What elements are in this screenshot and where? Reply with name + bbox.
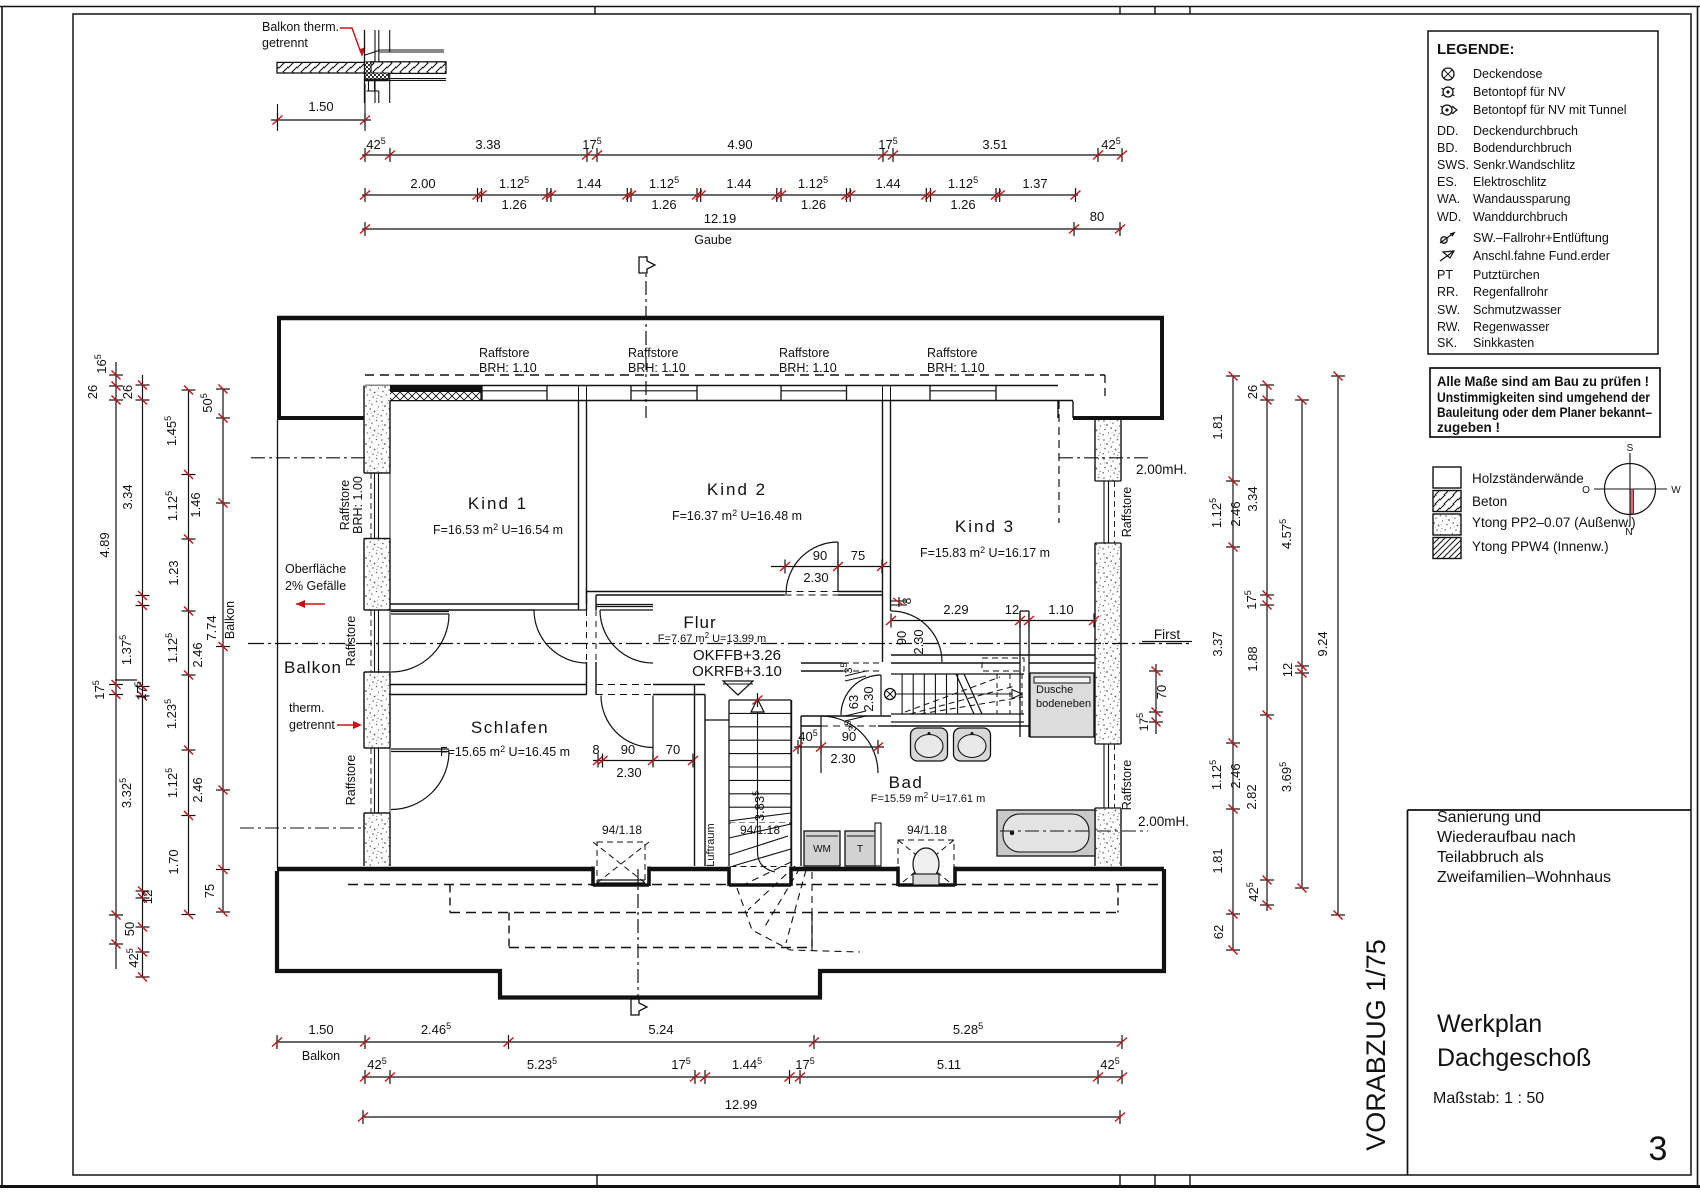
svg-text:OKFFB+3.26: OKFFB+3.26 <box>693 647 781 664</box>
top dimension row D (12.19 Gaube / 80) <box>362 228 1076 230</box>
bottom dimension row 2 <box>362 1076 1122 1078</box>
svg-text:Deckendose: Deckendose <box>1473 67 1543 81</box>
svg-text:Regenwasser: Regenwasser <box>1473 320 1549 334</box>
Kind3 south wall <box>891 654 1095 656</box>
left dimension chain D <box>222 389 224 912</box>
Kind1 south wall with opening to vestibule <box>390 603 579 605</box>
svg-text:BRH: 1.10: BRH: 1.10 <box>779 361 837 375</box>
svg-text:2.29: 2.29 <box>943 602 968 617</box>
svg-text:zugeben !: zugeben ! <box>1437 420 1500 435</box>
door arc window 2 west (into Schlafen upper) <box>391 611 449 613</box>
Luftraum dashed box and label <box>729 823 791 867</box>
svg-text:O: O <box>1582 485 1590 496</box>
svg-text:Raffstore: Raffstore <box>344 755 358 806</box>
svg-text:Teilabbruch als: Teilabbruch als <box>1437 849 1544 866</box>
svg-text:BRH: 1.00: BRH: 1.00 <box>351 476 365 534</box>
legend symbol Betontopf NV Tunnel <box>1442 105 1452 115</box>
duct next to appliances <box>875 823 881 866</box>
svg-text:1.26: 1.26 <box>651 197 676 212</box>
svg-text:62: 62 <box>1211 925 1226 939</box>
svg-text:Alle Maße sind am Bau zu prüfe: Alle Maße sind am Bau zu prüfen ! <box>1437 374 1649 389</box>
material legend Ytong PPW4 <box>1433 538 1461 559</box>
Bad door dimension <box>794 746 884 748</box>
balkon west edge line <box>277 420 279 868</box>
insulation strip top-left (black bar + crosshatch) <box>365 386 481 392</box>
dashed winder diagonals upper flight <box>905 677 1000 712</box>
svg-text:2.30: 2.30 <box>861 686 876 711</box>
svg-text:94/1.18: 94/1.18 <box>602 823 642 837</box>
svg-text:Luftraum: Luftraum <box>705 823 717 866</box>
svg-text:Kind 2: Kind 2 <box>707 480 767 499</box>
svg-text:94/1.18: 94/1.18 <box>740 823 780 837</box>
flight south wall <box>891 721 1024 723</box>
svg-text:Balkon: Balkon <box>284 658 342 677</box>
top exterior wall band (knee wall with windows) <box>365 385 1058 387</box>
svg-text:SW.–Fallrohr+Entlüftung: SW.–Fallrohr+Entlüftung <box>1473 231 1609 245</box>
svg-text:getrennt: getrennt <box>262 36 308 50</box>
svg-text:Werkplan: Werkplan <box>1437 1010 1542 1038</box>
compass rose <box>1605 464 1656 515</box>
right dimension chain R1 <box>1232 376 1234 950</box>
svg-text:Ytong PPW4 (Innenw.): Ytong PPW4 (Innenw.) <box>1472 539 1609 554</box>
dashed box above upper flight <box>982 658 1024 671</box>
svg-text:26: 26 <box>120 385 135 399</box>
svg-text:12: 12 <box>1280 663 1295 677</box>
left dimension chain B <box>142 375 144 977</box>
winder steps <box>729 813 791 821</box>
Flur north finish lines <box>596 604 653 606</box>
bottom dimension row 3 (12.99) <box>363 1116 1120 1118</box>
svg-text:70: 70 <box>1154 685 1169 699</box>
svg-text:26: 26 <box>1245 385 1260 399</box>
staircase upper flight <box>891 673 1024 675</box>
title block separator lines <box>1407 810 1409 1175</box>
dryer T <box>845 831 876 866</box>
svg-text:WA.: WA. <box>1437 192 1460 206</box>
wall Kind1-Kind2 <box>578 401 580 611</box>
svg-text:Unstimmigkeiten sind umgehend: Unstimmigkeiten sind umgehend der <box>1437 390 1651 405</box>
svg-text:Raffstore: Raffstore <box>628 346 679 360</box>
svg-text:Wandaussparung: Wandaussparung <box>1473 192 1571 206</box>
svg-text:F=16.53 m2 U=16.54 m: F=16.53 m2 U=16.54 m <box>433 522 563 537</box>
dashed line down right of gaube <box>1104 375 1106 401</box>
First ridge dash-dot line <box>248 643 1193 645</box>
svg-text:Schlafen: Schlafen <box>471 718 549 737</box>
svg-text:Sinkkasten: Sinkkasten <box>1473 336 1534 350</box>
svg-text:BRH: 1.10: BRH: 1.10 <box>927 361 985 375</box>
svg-text:1.44: 1.44 <box>875 176 900 191</box>
svg-text:90: 90 <box>842 729 856 744</box>
svg-text:1.44: 1.44 <box>576 176 601 191</box>
svg-text:LEGENDE:: LEGENDE: <box>1437 41 1515 58</box>
svg-text:4.89: 4.89 <box>97 532 112 557</box>
door arc landing side <box>600 609 653 611</box>
svg-text:2.46: 2.46 <box>190 642 205 667</box>
svg-text:F=7.67 m2 U=13.99 m: F=7.67 m2 U=13.99 m <box>658 631 766 645</box>
svg-text:Schmutzwasser: Schmutzwasser <box>1473 303 1561 317</box>
svg-text:W: W <box>1671 485 1681 496</box>
svg-text:OKRFB+3.10: OKRFB+3.10 <box>692 663 782 680</box>
1.26 window width ticks and labels on row B <box>477 188 479 202</box>
svg-text:3.51: 3.51 <box>982 137 1007 152</box>
svg-text:Senkr.Wandschlitz: Senkr.Wandschlitz <box>1473 158 1575 172</box>
Flur east dimension 2.29/12/1.10 <box>891 620 1094 622</box>
Dusche bodeneben <box>1030 673 1094 737</box>
svg-text:BRH: 1.10: BRH: 1.10 <box>479 361 537 375</box>
svg-text:94/1.18: 94/1.18 <box>907 823 947 837</box>
wall junction ticks in top band <box>578 386 580 401</box>
svg-text:Raffstore: Raffstore <box>1120 760 1134 811</box>
legend symbol Betontopf NV <box>1443 87 1453 97</box>
svg-text:Balkon: Balkon <box>223 601 237 639</box>
raffstore dashed line above top wall <box>365 374 1105 376</box>
svg-text:1.37: 1.37 <box>1022 176 1047 191</box>
svg-text:5.24: 5.24 <box>648 1022 673 1037</box>
stair cut line <box>956 674 974 714</box>
svg-text:2.46: 2.46 <box>190 777 205 802</box>
top dimension chain row B <box>362 194 1078 196</box>
svg-text:Raffstore: Raffstore <box>344 616 358 667</box>
stair dimension tick top <box>757 693 759 707</box>
svg-text:12: 12 <box>140 890 155 904</box>
svg-text:Ytong PP2–0.07 (Außenw.): Ytong PP2–0.07 (Außenw.) <box>1472 515 1636 530</box>
Bad north wall with door 40.5/90 <box>801 715 891 717</box>
top dimension chain row A <box>362 154 1122 156</box>
eaves step top right <box>1057 401 1059 418</box>
svg-text:F=16.37 m2 U=16.48 m: F=16.37 m2 U=16.48 m <box>672 508 802 523</box>
svg-text:Raffstore: Raffstore <box>927 346 978 360</box>
svg-text:VORABZUG 1/75: VORABZUG 1/75 <box>1361 939 1391 1151</box>
svg-text:Oberfläche: Oberfläche <box>285 562 346 576</box>
svg-text:Dachgeschoß: Dachgeschoß <box>1437 1044 1591 1072</box>
Kind2 door dimension 90/75/2.30 <box>771 566 890 568</box>
svg-text:WD.: WD. <box>1437 210 1461 224</box>
Deckendose symbol at stair <box>885 689 896 700</box>
svg-text:Raffstore: Raffstore <box>479 346 530 360</box>
svg-text:Elektroschlitz: Elektroschlitz <box>1473 175 1547 189</box>
Kind2 door leaf and arc <box>837 542 839 592</box>
svg-text:Bodendurchbruch: Bodendurchbruch <box>1473 141 1572 155</box>
svg-text:75: 75 <box>851 548 865 563</box>
svg-text:1.26: 1.26 <box>502 197 527 212</box>
svg-text:Deckendurchbruch: Deckendurchbruch <box>1473 124 1578 138</box>
vestibule wall stub x586-596 <box>586 590 588 610</box>
lower storey thick outline <box>277 869 1164 998</box>
svg-text:2.46: 2.46 <box>1228 501 1243 526</box>
Alle Masse notes box <box>1430 368 1660 437</box>
wall Kind2-Kind3 <box>882 401 884 663</box>
left dimension chain C <box>188 390 190 915</box>
svg-text:12: 12 <box>1005 602 1019 617</box>
svg-text:50: 50 <box>122 922 137 936</box>
svg-text:2% Gefälle: 2% Gefälle <box>285 579 346 593</box>
svg-text:3.34: 3.34 <box>120 484 135 509</box>
svg-text:1.81: 1.81 <box>1210 848 1225 873</box>
material legend Ytong PP2 <box>1433 514 1461 535</box>
Schlafen north wall <box>390 684 587 686</box>
west exterior wall (Ytong) with windows <box>364 386 390 867</box>
Kind3 west wall door <box>891 611 942 662</box>
svg-text:2.00mH.: 2.00mH. <box>1138 814 1189 829</box>
svg-text:2.30: 2.30 <box>803 570 828 585</box>
legend symbol Deckendose <box>1442 68 1454 80</box>
thick eaves outline top <box>277 316 1164 321</box>
svg-text:F=15.65 m2 U=16.45 m: F=15.65 m2 U=16.45 m <box>440 744 570 759</box>
svg-text:3.37: 3.37 <box>1210 631 1225 656</box>
window segment boundaries west wall <box>364 472 390 474</box>
right dimension chain R4 <box>1337 376 1339 915</box>
svg-text:2.30: 2.30 <box>830 751 855 766</box>
svg-text:1.70: 1.70 <box>166 849 181 874</box>
svg-text:2.82: 2.82 <box>1244 784 1259 809</box>
Luftraum wall <box>694 685 696 867</box>
Schlafen door arc <box>601 696 653 748</box>
svg-text:Balkon therm.: Balkon therm. <box>262 20 339 34</box>
fold mark left edge <box>115 679 137 681</box>
svg-text:First: First <box>1154 627 1180 642</box>
svg-text:70: 70 <box>666 742 680 757</box>
svg-text:Raffstore: Raffstore <box>338 480 352 531</box>
right dimension chain R2 <box>1266 385 1268 911</box>
svg-text:90: 90 <box>894 631 909 645</box>
svg-text:Maßstab: 1 : 50: Maßstab: 1 : 50 <box>1433 1090 1544 1107</box>
svg-text:9.24: 9.24 <box>1315 631 1330 656</box>
svg-text:getrennt: getrennt <box>289 718 335 732</box>
svg-text:2.30: 2.30 <box>616 765 641 780</box>
fold marks top edge <box>594 7 596 15</box>
svg-text:3.38: 3.38 <box>475 137 500 152</box>
svg-text:1.10: 1.10 <box>1048 602 1073 617</box>
svg-text:Wiederaufbau nach: Wiederaufbau nach <box>1437 829 1576 846</box>
legend symbol Anschlussfahne <box>1440 251 1454 261</box>
svg-text:90: 90 <box>813 548 827 563</box>
dimension 1.50 (balcony detail) <box>271 119 371 121</box>
svg-text:Kind 1: Kind 1 <box>468 494 528 513</box>
section line top with arrow <box>645 256 647 418</box>
Kind3 door dims vertical <box>898 597 900 607</box>
bathtub <box>997 810 1095 856</box>
east stair wall <box>791 700 793 866</box>
windows in top band <box>481 386 483 401</box>
svg-text:1.46: 1.46 <box>188 492 203 517</box>
east exterior wall (Ytong) with windows <box>1095 420 1121 866</box>
dashed roof overhang outlines below plan <box>348 884 1164 886</box>
svg-text:BD.: BD. <box>1437 141 1458 155</box>
svg-text:Raffstore: Raffstore <box>779 346 830 360</box>
svg-text:RW.: RW. <box>1437 320 1460 334</box>
bottom thick exterior wall with bays <box>277 867 593 872</box>
washing machine WM <box>804 831 840 866</box>
door arc window 3 west (into Schlafen) <box>391 748 449 750</box>
svg-text:Zweifamilien–Wohnhaus: Zweifamilien–Wohnhaus <box>1437 869 1611 886</box>
svg-text:Flur: Flur <box>683 613 716 632</box>
washbasins <box>911 728 948 761</box>
svg-text:Dusche: Dusche <box>1036 684 1073 696</box>
stair walk line lower <box>757 706 759 852</box>
svg-text:1.50: 1.50 <box>308 99 333 114</box>
svg-text:2.00: 2.00 <box>410 176 435 191</box>
material legend Holzstaenderwaende <box>1433 467 1461 488</box>
svg-text:1.81: 1.81 <box>1210 414 1225 439</box>
svg-text:1.50: 1.50 <box>308 1022 333 1037</box>
svg-text:1.44: 1.44 <box>726 176 751 191</box>
dimension 70/17.5 right of Dusche <box>1155 664 1157 734</box>
svg-text:DD.: DD. <box>1437 124 1459 138</box>
svg-text:Gaube: Gaube <box>694 233 732 247</box>
svg-text:Wanddurchbruch: Wanddurchbruch <box>1473 210 1568 224</box>
landing door 63/2.30 <box>801 662 843 664</box>
svg-text:N: N <box>1625 527 1632 538</box>
upper flight walk line with arrow <box>895 693 1012 695</box>
svg-text:Anschl.fahne Fund.erder: Anschl.fahne Fund.erder <box>1473 249 1610 263</box>
svg-text:2.30: 2.30 <box>911 629 926 654</box>
legend symbol SW-Fallrohr <box>1441 237 1447 243</box>
svg-text:4.90: 4.90 <box>727 137 752 152</box>
svg-text:F=15.83 m2 U=16.17 m: F=15.83 m2 U=16.17 m <box>920 545 1050 560</box>
svg-text:7.74: 7.74 <box>204 615 219 640</box>
svg-text:Bauleitung oder dem Planer bek: Bauleitung oder dem Planer bekannt– <box>1437 405 1652 420</box>
svg-text:12.19: 12.19 <box>704 211 737 226</box>
svg-text:1.88: 1.88 <box>1245 646 1260 671</box>
svg-text:Betontopf für NV mit Tunne: Betontopf für NV mit Tunnel <box>1473 103 1627 117</box>
svg-text:Bad: Bad <box>889 773 924 792</box>
winder dashed continuation below <box>737 862 791 888</box>
svg-text:12.99: 12.99 <box>725 1097 758 1112</box>
svg-text:80: 80 <box>1090 209 1104 224</box>
svg-text:Balkon: Balkon <box>302 1049 340 1063</box>
svg-text:BRH: 1.10: BRH: 1.10 <box>628 361 686 375</box>
svg-text:Putztürchen: Putztürchen <box>1473 268 1540 282</box>
svg-text:Sanierung und: Sanierung und <box>1437 809 1541 826</box>
material legend Beton <box>1433 491 1461 512</box>
door arc Schlafen vestibule <box>534 609 587 611</box>
page outer border <box>0 6 1700 8</box>
svg-text:Beton: Beton <box>1472 494 1507 509</box>
Kind2 south wall with door <box>587 591 785 593</box>
svg-text:Kind 3: Kind 3 <box>955 517 1015 536</box>
svg-text:2.00mH.: 2.00mH. <box>1136 462 1187 477</box>
svg-text:PT: PT <box>1437 268 1453 282</box>
svg-text:SK.: SK. <box>1437 336 1457 350</box>
svg-text:90: 90 <box>621 742 635 757</box>
bay window dashed box left (Schlafen gable window) <box>597 842 645 886</box>
Schlafen door dimension 8/90/70 2.30 <box>593 760 694 762</box>
svg-text:26: 26 <box>85 385 100 399</box>
svg-text:2.46: 2.46 <box>1228 763 1243 788</box>
dashed roof 2m line right <box>1058 401 1060 523</box>
svg-text:therm.: therm. <box>289 701 324 715</box>
svg-text:SWS.: SWS. <box>1437 158 1469 172</box>
section line bottom with arrow <box>637 869 639 1000</box>
left dimension chain A <box>115 362 117 969</box>
LEGENDE box <box>1428 31 1658 354</box>
svg-text:63: 63 <box>846 695 861 709</box>
svg-text:T: T <box>857 844 863 855</box>
bottom dimension row 1 <box>277 1041 1122 1043</box>
stub wall in Flur east arm <box>1019 611 1021 737</box>
svg-text:75: 75 <box>202 884 217 898</box>
svg-text:WM: WM <box>813 844 831 855</box>
svg-text:8: 8 <box>900 597 914 604</box>
svg-text:Raffstore: Raffstore <box>1120 487 1134 538</box>
svg-text:1.26: 1.26 <box>950 197 975 212</box>
svg-text:SW.: SW. <box>1437 303 1460 317</box>
right dimension chain R3 <box>1301 400 1303 888</box>
svg-text:F=15.59 m2 U=17.61 m: F=15.59 m2 U=17.61 m <box>871 791 986 805</box>
svg-text:Regenfallrohr: Regenfallrohr <box>1473 285 1548 299</box>
staircase lower flight <box>728 700 730 866</box>
Bad door arc <box>821 716 878 773</box>
svg-text:5.11: 5.11 <box>937 1057 961 1072</box>
svg-text:3: 3 <box>1649 1130 1668 1168</box>
svg-text:bodeneben: bodeneben <box>1036 698 1091 710</box>
ledge line at stair west <box>705 719 729 721</box>
WC dashed box and toilet <box>898 840 954 886</box>
svg-text:ES.: ES. <box>1437 175 1457 189</box>
svg-text:1.23: 1.23 <box>166 560 181 585</box>
svg-text:S: S <box>1627 443 1634 454</box>
2.00m height dash-dot lines <box>251 457 365 459</box>
svg-text:RR.: RR. <box>1437 285 1459 299</box>
svg-text:Betontopf für NV: Betontopf für NV <box>1473 85 1566 99</box>
svg-text:1.26: 1.26 <box>801 197 826 212</box>
svg-text:3.34: 3.34 <box>1245 486 1260 511</box>
svg-text:Holzständerwände: Holzständerwände <box>1472 471 1584 486</box>
fold marks bottom edge <box>596 1175 598 1187</box>
svg-text:8: 8 <box>592 742 599 757</box>
